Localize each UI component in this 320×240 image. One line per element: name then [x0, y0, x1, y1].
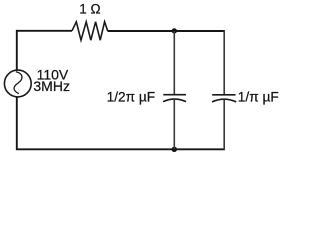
capacitor C1 curved bottom plate — [163, 99, 186, 102]
wire: right branch vertical lower — [223, 100, 225, 150]
wire: middle branch vertical lower — [173, 99, 175, 149]
capacitor C2 (1/pi uF) top plate — [212, 94, 235, 96]
resistor R (1 ohm) zigzag — [72, 22, 108, 40]
svg-text:1 Ω: 1 Ω — [79, 1, 100, 16]
wire: top left horizontal (corner to resistor) — [16, 30, 72, 32]
wire: right branch vertical upper — [223, 31, 225, 95]
capacitor C2 curved bottom plate — [212, 99, 236, 102]
wire: left vertical upper (corner to source) — [16, 30, 18, 70]
wire: left vertical lower (source to bottom corner) — [16, 97, 18, 150]
wire: bottom horizontal — [16, 148, 225, 150]
node junction dot top — [172, 28, 177, 33]
svg-text:1/π µF: 1/π µF — [238, 89, 279, 104]
wire: middle branch vertical upper — [173, 31, 175, 95]
AC source sine wave — [14, 72, 22, 94]
node junction dot bottom — [172, 147, 177, 152]
svg-text:1/2π µF: 1/2π µF — [107, 89, 156, 104]
AC source V1 circle — [4, 70, 31, 97]
svg-text:3MHz: 3MHz — [33, 78, 70, 94]
wire: top horizontal (resistor to right corner) — [108, 30, 225, 32]
capacitor C1 (1/2pi uF) top plate — [163, 94, 186, 96]
